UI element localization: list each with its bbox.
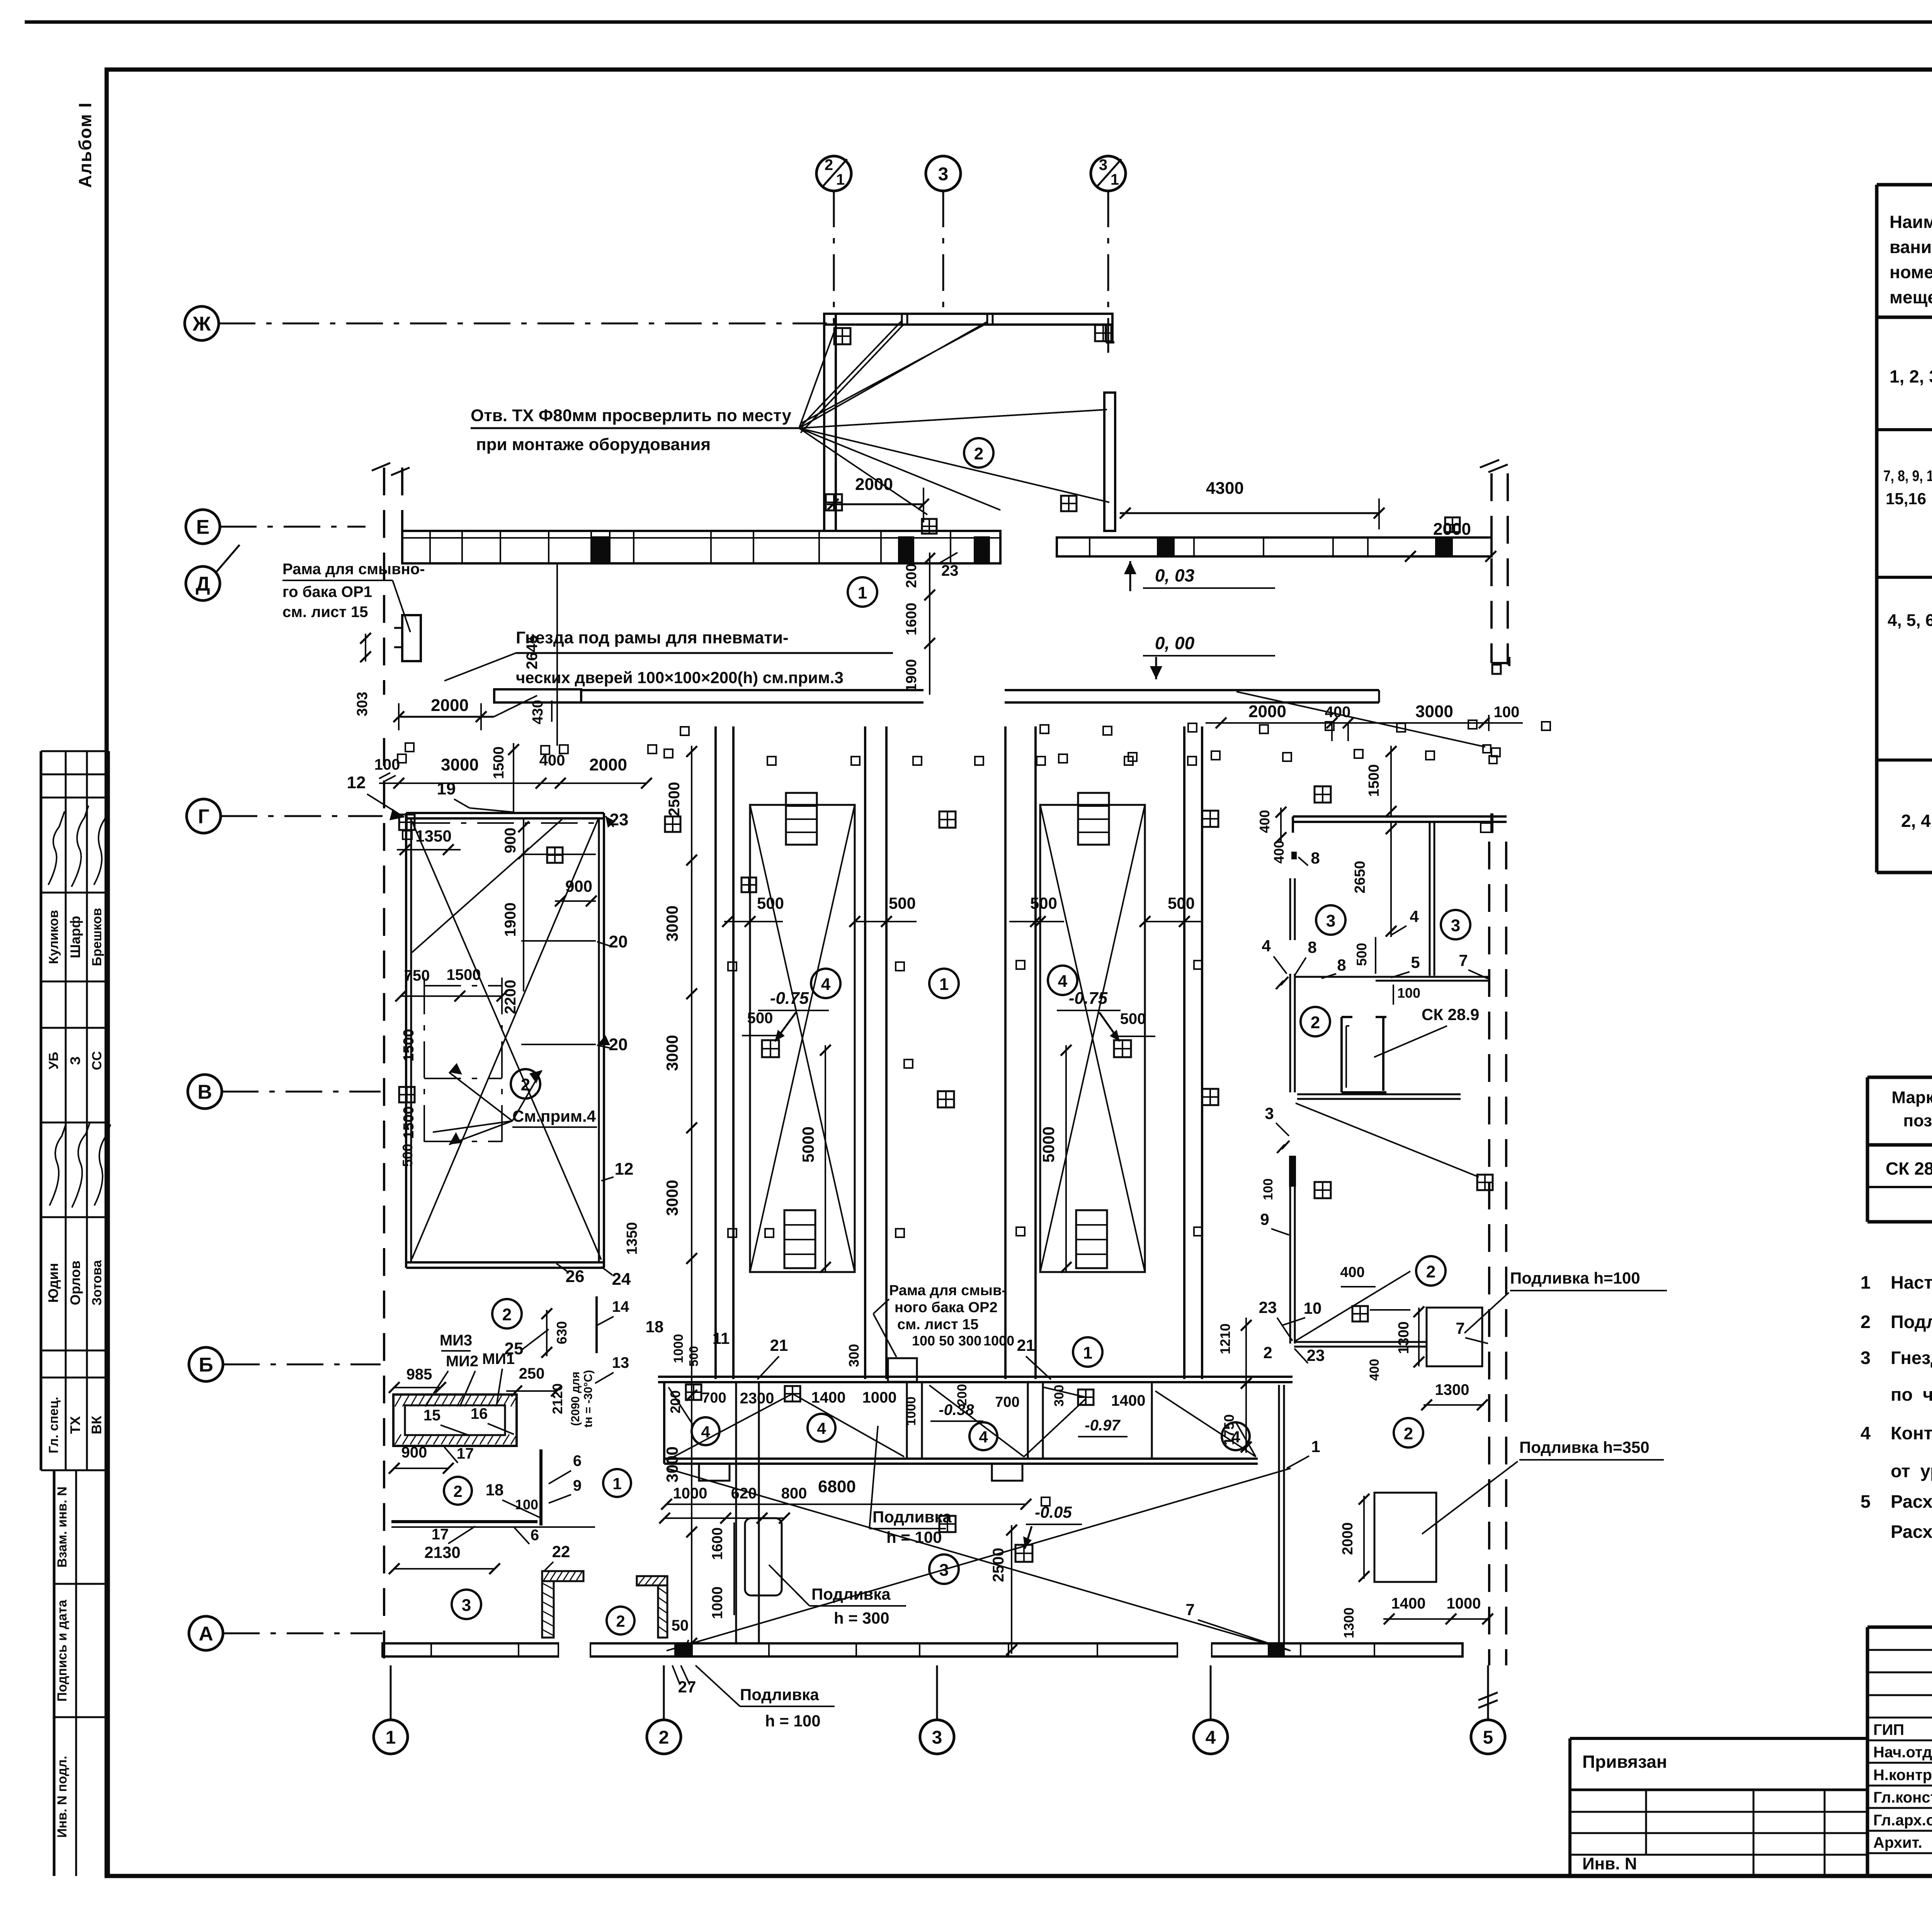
svg-text:2645: 2645 bbox=[524, 635, 541, 670]
svg-text:5: 5 bbox=[1861, 1491, 1871, 1512]
bottom axis 3 bbox=[936, 1665, 938, 1720]
room tag 3 bottom bbox=[929, 1554, 959, 1584]
svg-text:15,16: 15,16 bbox=[1886, 490, 1926, 508]
svg-text:8: 8 bbox=[1308, 938, 1316, 956]
svg-text:(2090 для: (2090 для bbox=[569, 1372, 582, 1426]
svg-text:Расход оцинкованной арматуры: Расход оцинкованной арматуры Ф10 АІ- 8.0… bbox=[1891, 1521, 1932, 1542]
inner dashdot box bbox=[424, 985, 502, 986]
svg-text:23: 23 bbox=[1307, 1346, 1325, 1364]
svg-text:7: 7 bbox=[1185, 1600, 1194, 1619]
axis line G bbox=[221, 815, 383, 817]
svg-text:26: 26 bbox=[566, 1267, 585, 1286]
svg-text:1000: 1000 bbox=[673, 1485, 707, 1502]
svg-text:5000: 5000 bbox=[799, 1126, 817, 1162]
svg-text:4: 4 bbox=[979, 1428, 988, 1446]
svg-text:Подпись и дата: Подпись и дата bbox=[55, 1599, 70, 1702]
svg-text:985: 985 bbox=[406, 1366, 432, 1383]
room tag 1 left bbox=[603, 1469, 631, 1497]
svg-text:Г: Г bbox=[198, 806, 209, 828]
svg-text:2: 2 bbox=[659, 1727, 669, 1748]
dashed column line upper left bbox=[383, 468, 385, 695]
label 8 with marker bbox=[1291, 852, 1297, 859]
svg-text:2: 2 bbox=[1426, 1262, 1435, 1281]
svg-text:см. лист 15: см. лист 15 bbox=[897, 1316, 978, 1333]
svg-text:Орлов: Орлов bbox=[67, 1260, 83, 1305]
svg-text:3: 3 bbox=[932, 1727, 942, 1748]
svg-text:400: 400 bbox=[1367, 1359, 1382, 1381]
svg-text:24: 24 bbox=[612, 1270, 631, 1289]
svg-text:400: 400 bbox=[1340, 1264, 1364, 1281]
4 circles bbox=[811, 969, 840, 998]
svg-text:2500: 2500 bbox=[990, 1548, 1007, 1582]
svg-text:УБ: УБ bbox=[46, 1052, 61, 1070]
left room diagonals bbox=[412, 821, 601, 1260]
svg-text:ного бака ОР2: ного бака ОР2 bbox=[895, 1299, 998, 1316]
svg-text:500: 500 bbox=[687, 1346, 701, 1366]
svg-text:Подливка h=350: Подливка h=350 bbox=[1519, 1438, 1650, 1456]
svg-text:2000: 2000 bbox=[1340, 1522, 1356, 1555]
svg-text:12: 12 bbox=[615, 1160, 634, 1179]
svg-text:4, 5, 6, 13,14: 4, 5, 6, 13,14 bbox=[1888, 611, 1932, 630]
svg-text:2650: 2650 bbox=[1352, 861, 1368, 894]
left room top wall bbox=[406, 812, 604, 814]
svg-text:2: 2 bbox=[974, 444, 983, 463]
svg-text:1000: 1000 bbox=[904, 1396, 918, 1426]
svg-text:250: 250 bbox=[519, 1365, 545, 1382]
svg-text:16: 16 bbox=[471, 1405, 488, 1422]
upper room top wall bbox=[824, 314, 1112, 325]
svg-text:1500: 1500 bbox=[401, 1029, 417, 1062]
svg-text:4: 4 bbox=[821, 975, 831, 994]
svg-text:2: 2 bbox=[521, 1075, 530, 1094]
svg-text:Гнезда в полу для установки: Гнезда в полу для установки технологичес… bbox=[1891, 1347, 1932, 1368]
circle 2 room tag bbox=[964, 438, 993, 468]
svg-text:900: 900 bbox=[565, 877, 592, 895]
svg-text:6800: 6800 bbox=[818, 1477, 856, 1496]
main title block bbox=[1867, 1626, 1932, 1629]
svg-text:3: 3 bbox=[938, 164, 949, 184]
svg-text:12: 12 bbox=[347, 773, 366, 792]
SK cabin bbox=[1340, 1017, 1343, 1092]
milk room top wall bbox=[658, 1376, 1293, 1378]
wall y2533 bbox=[1296, 976, 1488, 978]
svg-text:1210: 1210 bbox=[1217, 1323, 1233, 1354]
svg-text:1400: 1400 bbox=[1111, 1392, 1146, 1409]
svg-text:3: 3 bbox=[1099, 156, 1107, 173]
svg-text:6: 6 bbox=[531, 1527, 539, 1544]
svg-text:Архит.: Архит. bbox=[1873, 1834, 1922, 1851]
room tag 2 small bottom bbox=[607, 1607, 634, 1634]
svg-text:ТХ: ТХ bbox=[67, 1416, 83, 1434]
svg-text:2000: 2000 bbox=[589, 755, 627, 774]
room tag 2 bbox=[1301, 1007, 1330, 1036]
window pane markers central bbox=[939, 811, 956, 828]
svg-text:21: 21 bbox=[1017, 1336, 1035, 1354]
svg-text:18: 18 bbox=[486, 1481, 504, 1499]
right room tags bbox=[1416, 1256, 1446, 1286]
svg-text:1500: 1500 bbox=[447, 966, 481, 983]
svg-text:13: 13 bbox=[612, 1354, 629, 1371]
dashed outline left wall bbox=[383, 738, 385, 1665]
svg-text:6: 6 bbox=[573, 1452, 582, 1469]
wall below MI bbox=[391, 1520, 537, 1523]
svg-text:СС: СС bbox=[90, 1051, 104, 1070]
svg-text:Д: Д bbox=[196, 573, 210, 595]
svg-text:Инв. N: Инв. N bbox=[1582, 1854, 1637, 1873]
axis line Zh bbox=[219, 323, 827, 325]
room tag 2 mid bbox=[444, 1477, 472, 1505]
element hatched wall right bbox=[637, 1576, 667, 1585]
svg-text:2: 2 bbox=[1404, 1424, 1413, 1443]
svg-text:го бака ОР1: го бака ОР1 bbox=[282, 583, 372, 600]
axis circle Б bbox=[189, 1347, 223, 1381]
svg-text:500: 500 bbox=[889, 894, 916, 912]
circle 1 tag bbox=[848, 577, 877, 607]
ramp frame OP1 bbox=[402, 615, 421, 661]
svg-text:5: 5 bbox=[1411, 953, 1420, 971]
svg-text:2: 2 bbox=[1263, 1344, 1272, 1362]
svg-text:700: 700 bbox=[995, 1394, 1019, 1410]
svg-text:22: 22 bbox=[552, 1543, 570, 1561]
svg-text:Настоящий лист смотреть сов: Настоящий лист смотреть совместно с лист… bbox=[1891, 1272, 1932, 1293]
svg-text:8: 8 bbox=[1337, 956, 1346, 974]
leader fan bbox=[799, 330, 835, 428]
svg-text:1500: 1500 bbox=[1366, 764, 1382, 797]
svg-text:от уровня пола с выпуском: от уровня пола с выпуском 4-х отрезков н… bbox=[1891, 1461, 1932, 1481]
pit dividers bbox=[906, 1382, 908, 1459]
lower rail pair bbox=[735, 1382, 737, 1643]
svg-text:500: 500 bbox=[1030, 894, 1057, 912]
svg-text:Н.контр.: Н.контр. bbox=[1873, 1767, 1932, 1784]
sidebar signatures 2 bbox=[49, 1122, 66, 1206]
svg-text:МИ3: МИ3 bbox=[440, 1332, 472, 1349]
svg-text:9: 9 bbox=[1260, 1210, 1269, 1228]
axis line D leader bbox=[216, 545, 240, 572]
svg-text:Ж: Ж bbox=[192, 313, 211, 335]
svg-text:1: 1 bbox=[1861, 1272, 1871, 1293]
dim 430 rotated bbox=[551, 701, 553, 722]
svg-text:14: 14 bbox=[612, 1298, 629, 1315]
svg-text:4: 4 bbox=[1058, 972, 1068, 991]
svg-text:1: 1 bbox=[1311, 1437, 1320, 1456]
svg-text:3000: 3000 bbox=[663, 905, 681, 941]
svg-text:tн = -30°С): tн = -30°С) bbox=[582, 1370, 595, 1427]
svg-text:7: 7 bbox=[1456, 1319, 1464, 1337]
svg-text:7: 7 bbox=[1459, 951, 1468, 969]
svg-text:4: 4 bbox=[701, 1423, 710, 1441]
ramp frame OP2 bbox=[888, 1358, 917, 1382]
svg-text:4: 4 bbox=[817, 1419, 826, 1437]
left thin wall segments bbox=[1289, 878, 1291, 940]
svg-text:3000: 3000 bbox=[1415, 702, 1453, 721]
svg-text:мещения: мещения bbox=[1889, 287, 1932, 307]
svg-text:3: 3 bbox=[1326, 912, 1335, 930]
pinned table (privyazan) bbox=[1568, 1738, 1571, 1876]
inner box arrows bbox=[449, 1072, 512, 1121]
svg-text:поз.: поз. bbox=[1903, 1111, 1932, 1130]
svg-text:0, 03: 0, 03 bbox=[1155, 565, 1195, 585]
svg-text:1900: 1900 bbox=[502, 903, 519, 937]
svg-text:2130: 2130 bbox=[424, 1543, 460, 1561]
svg-text:21: 21 bbox=[770, 1336, 788, 1354]
svg-text:Подливка: Подливка bbox=[740, 1685, 819, 1704]
axis circle Г bbox=[187, 799, 221, 833]
room tags 3 bbox=[1316, 905, 1345, 935]
svg-text:Гл.констр.: Гл.констр. bbox=[1873, 1789, 1932, 1806]
svg-text:Наимено-: Наимено- bbox=[1889, 212, 1932, 232]
svg-text:400: 400 bbox=[1257, 810, 1272, 833]
left room right wall bbox=[598, 818, 600, 1262]
svg-text:100: 100 bbox=[515, 1497, 538, 1512]
svg-text:2: 2 bbox=[616, 1612, 625, 1630]
svg-text:-0.05: -0.05 bbox=[1035, 1503, 1072, 1521]
svg-text:3: 3 bbox=[1265, 1104, 1274, 1122]
svg-text:ВК: ВК bbox=[88, 1415, 104, 1434]
pit diagonals bbox=[667, 1394, 793, 1461]
room tag 2 bbox=[511, 1069, 540, 1099]
svg-text:1300: 1300 bbox=[1341, 1607, 1357, 1638]
axis line A bbox=[223, 1633, 383, 1634]
bottom axis 1 bbox=[390, 1665, 392, 1720]
svg-text:Взам. инв. N: Взам. инв. N bbox=[55, 1486, 70, 1568]
vertical wall x1400 bbox=[539, 1449, 543, 1526]
axis circle 2 bbox=[647, 1720, 681, 1754]
svg-text:Нач.отд.: Нач.отд. bbox=[1873, 1744, 1932, 1761]
svg-text:Контур 3000×1500 „УВЭП“ Ф10: Контур 3000×1500 „УВЭП“ Ф10 АІ оцинкован… bbox=[1891, 1423, 1932, 1443]
svg-text:1000: 1000 bbox=[671, 1334, 686, 1363]
1 circles center bbox=[929, 969, 959, 998]
axis circle В bbox=[188, 1075, 222, 1109]
svg-text:4: 4 bbox=[1262, 937, 1271, 955]
svg-text:5000: 5000 bbox=[1039, 1126, 1058, 1162]
svg-text:Рама для смывно-: Рама для смывно- bbox=[282, 561, 425, 578]
sidebar stamp table lower bbox=[53, 1470, 56, 1876]
svg-text:500: 500 bbox=[400, 1144, 415, 1167]
wall y3477 bbox=[1294, 1341, 1427, 1343]
svg-text:2: 2 bbox=[825, 156, 833, 173]
svg-text:h = 100: h = 100 bbox=[765, 1712, 821, 1730]
svg-text:3: 3 bbox=[1451, 916, 1460, 935]
axis circle А bbox=[189, 1616, 223, 1650]
svg-text:Зотова: Зотова bbox=[90, 1260, 104, 1306]
svg-text:3000: 3000 bbox=[441, 755, 479, 774]
axis line B bbox=[223, 1364, 381, 1366]
svg-text:50: 50 bbox=[672, 1617, 689, 1634]
svg-text:1500: 1500 bbox=[491, 747, 507, 779]
svg-text:17: 17 bbox=[457, 1445, 474, 1462]
4 circles milk room bbox=[692, 1417, 719, 1445]
ladder B1 bottom bbox=[784, 1210, 815, 1268]
svg-text:23: 23 bbox=[1259, 1298, 1277, 1316]
svg-text:1400: 1400 bbox=[811, 1389, 846, 1406]
svg-text:5: 5 bbox=[1483, 1727, 1493, 1748]
ladder B1 top bbox=[786, 793, 817, 845]
svg-text:500: 500 bbox=[1120, 1010, 1146, 1027]
svg-text:1: 1 bbox=[858, 583, 867, 602]
svg-text:2: 2 bbox=[1311, 1013, 1320, 1032]
svg-text:2: 2 bbox=[453, 1482, 462, 1500]
svg-text:300: 300 bbox=[1052, 1385, 1066, 1407]
svg-text:1000: 1000 bbox=[983, 1333, 1014, 1349]
svg-text:900: 900 bbox=[502, 828, 519, 854]
left room left wall bbox=[405, 813, 407, 1268]
bottom wall axis A bbox=[383, 1643, 1463, 1656]
socket square markers bbox=[405, 743, 414, 752]
axis circle 4 bbox=[1194, 1720, 1228, 1754]
svg-text:900: 900 bbox=[401, 1444, 427, 1461]
svg-text:4: 4 bbox=[1861, 1423, 1871, 1443]
bottom axis 5 bbox=[1487, 1665, 1489, 1720]
upper room left wall bbox=[824, 314, 836, 531]
wall on axis E right segment bbox=[1057, 537, 1492, 556]
svg-text:100: 100 bbox=[1261, 1179, 1276, 1201]
svg-text:300: 300 bbox=[846, 1344, 862, 1367]
svg-text:100 50 300: 100 50 300 bbox=[912, 1333, 981, 1349]
svg-text:500: 500 bbox=[747, 1010, 773, 1027]
svg-text:19: 19 bbox=[437, 779, 456, 798]
svg-text:h = 100: h = 100 bbox=[886, 1528, 942, 1546]
pit edge lines bbox=[714, 726, 717, 1379]
wall y2838 bbox=[1297, 1094, 1461, 1095]
svg-text:23: 23 bbox=[941, 562, 959, 579]
svg-text:МИ2: МИ2 bbox=[446, 1353, 478, 1370]
svg-text:Расход арматуры Ф6 АІ для: Расход арматуры Ф6 АІ для проводника „УВ… bbox=[1891, 1491, 1932, 1512]
svg-text:2: 2 bbox=[502, 1305, 512, 1324]
svg-text:1: 1 bbox=[1111, 171, 1119, 188]
svg-text:см. лист 15: см. лист 15 bbox=[282, 604, 368, 621]
svg-text:2: 2 bbox=[1861, 1311, 1871, 1332]
stall box B2 bbox=[1040, 805, 1145, 1272]
bottom axis 4 bbox=[1210, 1665, 1212, 1720]
axis line V bbox=[222, 1091, 381, 1093]
svg-text:1600: 1600 bbox=[709, 1527, 726, 1560]
svg-text:4300: 4300 bbox=[1206, 479, 1244, 498]
svg-text:вание или: вание или bbox=[1889, 237, 1932, 257]
svg-text:1350: 1350 bbox=[415, 827, 451, 845]
top axis 2/1 bbox=[833, 190, 835, 325]
ladder B2 bottom bbox=[1076, 1210, 1107, 1268]
svg-text:В: В bbox=[197, 1081, 212, 1104]
pit sub rects bbox=[699, 1464, 730, 1481]
svg-text:500: 500 bbox=[1168, 894, 1195, 912]
milk pit bottom wall bbox=[664, 1458, 1258, 1460]
svg-text:1400: 1400 bbox=[1391, 1595, 1426, 1612]
bottom axis 2 bbox=[663, 1665, 665, 1720]
svg-text:-0.97: -0.97 bbox=[1085, 1417, 1121, 1434]
svg-text:1350: 1350 bbox=[624, 1222, 640, 1255]
axis circle 3 bbox=[920, 1720, 954, 1754]
svg-text:Шарф: Шарф bbox=[67, 916, 83, 958]
svg-text:200: 200 bbox=[903, 563, 920, 588]
axis circle Д bbox=[186, 566, 220, 600]
wall on axis E left segment bbox=[402, 531, 1000, 563]
sidebar signatures bbox=[48, 811, 65, 885]
room 3 big X bbox=[667, 1468, 1291, 1651]
svg-text:2000: 2000 bbox=[431, 696, 469, 715]
corridor wall bbox=[494, 689, 581, 702]
svg-text:ческих дверей 100×100×200(h): ческих дверей 100×100×200(h) см.прим.3 bbox=[516, 668, 844, 687]
svg-text:8: 8 bbox=[1311, 849, 1320, 867]
svg-text:1600: 1600 bbox=[903, 603, 920, 636]
right rooms upper walls bbox=[1293, 815, 1507, 818]
svg-text:при монтаже оборудования: при монтаже оборудования bbox=[476, 435, 711, 454]
svg-text:400: 400 bbox=[1271, 840, 1287, 864]
svg-text:Подливка: Подливка bbox=[872, 1508, 952, 1526]
axis circle Ж bbox=[185, 306, 219, 340]
svg-text:3: 3 bbox=[462, 1596, 471, 1615]
svg-text:1000: 1000 bbox=[862, 1389, 897, 1406]
svg-text:Марка,: Марка, bbox=[1891, 1088, 1932, 1107]
svg-text:Рама для смыв-: Рама для смыв- bbox=[889, 1282, 1007, 1299]
svg-text:7, 8, 9, 10,11,12,: 7, 8, 9, 10,11,12, bbox=[1883, 468, 1932, 485]
upper room right wall bbox=[1104, 393, 1115, 531]
svg-text:2000: 2000 bbox=[1248, 702, 1286, 721]
svg-text:Гл. спец.: Гл. спец. bbox=[46, 1397, 61, 1454]
svg-text:100: 100 bbox=[1397, 985, 1420, 1001]
svg-text:700: 700 bbox=[702, 1390, 726, 1406]
svg-text:1: 1 bbox=[1083, 1344, 1092, 1362]
svg-text:h = 300: h = 300 bbox=[834, 1609, 889, 1627]
svg-text:Отв. ТХ Ф80мм просверлить по м: Отв. ТХ Ф80мм просверлить по месту bbox=[471, 406, 792, 425]
svg-text:500: 500 bbox=[757, 894, 784, 912]
axis circle 5 bbox=[1471, 1720, 1505, 1754]
svg-text:3000: 3000 bbox=[663, 1180, 681, 1216]
svg-text:См.прим.4: См.прим.4 bbox=[512, 1107, 596, 1125]
milk pit left wall bbox=[663, 1382, 665, 1464]
wall below corner bbox=[1278, 1385, 1280, 1643]
svg-text:по чертежам марки ТХ.: по чертежам марки ТХ. bbox=[1891, 1384, 1932, 1405]
svg-text:100: 100 bbox=[1494, 704, 1520, 721]
svg-text:2500: 2500 bbox=[666, 782, 683, 816]
room tag 2b bbox=[492, 1299, 522, 1328]
svg-text:Подливка: Подливка bbox=[811, 1585, 891, 1603]
socket squares right edge bbox=[1483, 745, 1491, 753]
svg-text:2300: 2300 bbox=[740, 1390, 774, 1407]
window hatch markers upper room bbox=[834, 328, 850, 344]
svg-text:1300: 1300 bbox=[1396, 1321, 1412, 1354]
pit window markers bbox=[686, 1384, 701, 1400]
svg-text:11: 11 bbox=[713, 1329, 730, 1347]
svg-text:1000: 1000 bbox=[1447, 1595, 1481, 1612]
svg-text:2, 4: 2, 4 bbox=[1901, 811, 1931, 831]
axis circle 1 bbox=[374, 1720, 408, 1754]
axis circle 3 bbox=[926, 156, 961, 191]
white gaps in A wall bbox=[559, 1641, 590, 1658]
svg-text:630: 630 bbox=[554, 1321, 570, 1344]
svg-text:Привязан: Привязан bbox=[1582, 1752, 1667, 1772]
svg-text:2000: 2000 bbox=[1433, 520, 1471, 539]
partition wall below top bbox=[1429, 822, 1431, 976]
svg-text:2200: 2200 bbox=[502, 980, 519, 1014]
svg-text:СК 28.9: СК 28.9 bbox=[1422, 1005, 1479, 1024]
ladder B2 top bbox=[1078, 793, 1109, 845]
svg-text:3: 3 bbox=[1861, 1347, 1871, 1368]
svg-text:1: 1 bbox=[612, 1475, 621, 1493]
svg-text:МИ1: МИ1 bbox=[482, 1350, 515, 1367]
svg-text:-0.75: -0.75 bbox=[770, 989, 809, 1008]
svg-text:10: 10 bbox=[1304, 1299, 1322, 1317]
svg-text:Инв. N подл.: Инв. N подл. bbox=[55, 1756, 70, 1838]
svg-text:-0.38: -0.38 bbox=[939, 1401, 974, 1418]
svg-text:1000: 1000 bbox=[709, 1587, 726, 1619]
svg-text:Альбом I: Альбом I bbox=[75, 102, 95, 188]
svg-text:Гл.арх.от.: Гл.арх.от. bbox=[1873, 1812, 1932, 1829]
left room bottom wall bbox=[406, 1261, 604, 1264]
dashed outline right wall bbox=[1490, 473, 1493, 663]
svg-text:4: 4 bbox=[1410, 907, 1419, 925]
axis circle Е bbox=[186, 510, 220, 544]
svg-text:9: 9 bbox=[573, 1477, 582, 1494]
